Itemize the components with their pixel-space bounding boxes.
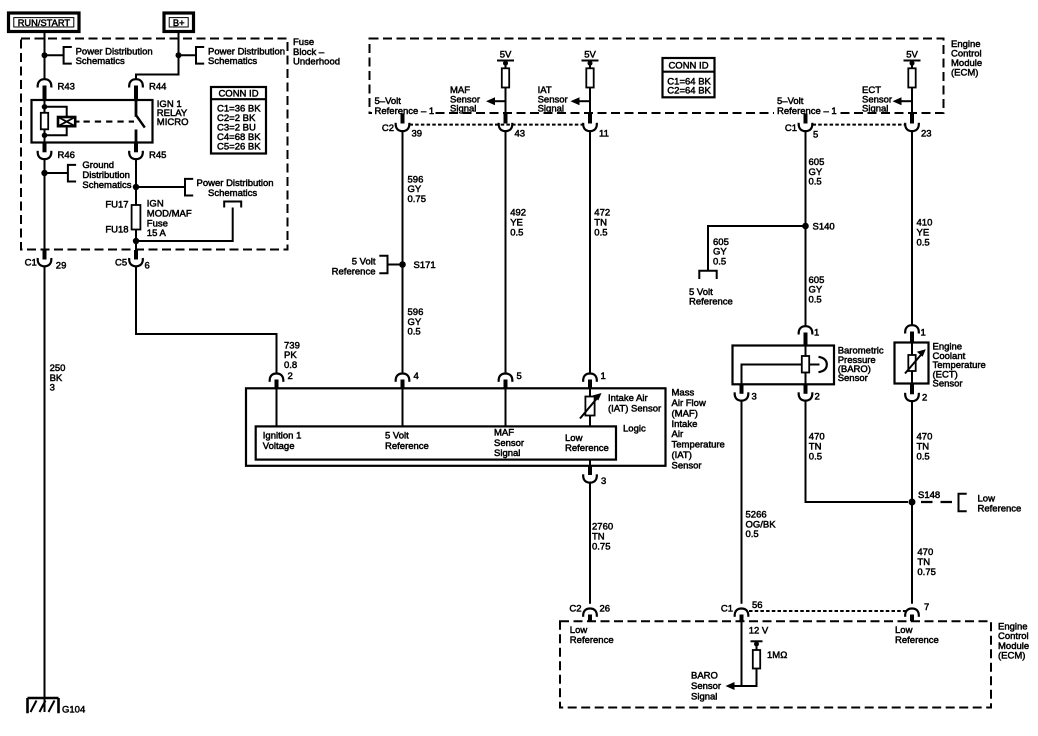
connector ECT pin 2 <box>905 384 927 404</box>
relay coil resistor <box>41 113 48 130</box>
node junction ground distribution <box>41 170 47 176</box>
wire ECT pin2 down to S148 and pin 7 <box>911 401 913 604</box>
net label 5-Volt Reference - 1 (left) <box>372 93 434 117</box>
svg-text:Intake: Intake <box>672 419 698 430</box>
connector R43 <box>38 79 75 100</box>
label 470 TN 0.5 (BARO) <box>809 432 825 463</box>
label 470 TN 0.75 <box>917 547 936 578</box>
connector dotted line 5-23 <box>813 124 906 126</box>
connector R46 <box>38 143 75 162</box>
svg-text:Schematics: Schematics <box>82 180 131 191</box>
svg-text:0.5: 0.5 <box>809 177 822 188</box>
relay coil wire left <box>44 100 46 143</box>
label 5266 OG/BK 0.5 <box>746 510 777 541</box>
resistor 1M ohm <box>753 650 788 669</box>
svg-text:12 V: 12 V <box>749 626 769 637</box>
connector MAF pin 2 <box>270 371 293 388</box>
svg-text:15 A: 15 A <box>147 228 167 239</box>
svg-text:C2: C2 <box>382 123 394 134</box>
node junction on B+ wire <box>176 52 182 58</box>
connector C2 pin 39 <box>382 114 422 140</box>
svg-text:6: 6 <box>145 261 150 272</box>
relay switch contact <box>136 100 145 143</box>
svg-text:Air Flow: Air Flow <box>672 398 706 409</box>
wire B+ down <box>136 32 179 80</box>
connector dotted line 56-7 <box>749 610 906 612</box>
resistor ECT pullup <box>908 68 915 87</box>
svg-text:1: 1 <box>814 328 819 339</box>
svg-text:1: 1 <box>601 371 606 382</box>
off-page reference Power Distribution Schematics (left) <box>64 46 153 67</box>
5V supply MAF <box>497 49 514 68</box>
wire 43 down to MAF pin 5 <box>505 131 507 373</box>
ground G104 <box>28 698 86 716</box>
svg-text:0.5: 0.5 <box>809 451 822 462</box>
svg-text:S148: S148 <box>918 490 940 501</box>
svg-text:2: 2 <box>288 371 293 382</box>
splice S171 <box>399 260 435 271</box>
connector R44 <box>129 79 166 100</box>
svg-text:0.75: 0.75 <box>408 194 427 205</box>
svg-text:Temperature: Temperature <box>672 440 725 451</box>
svg-text:Sensor: Sensor <box>838 373 868 384</box>
connector BARO pin 1 <box>799 326 820 345</box>
svg-text:S171: S171 <box>414 260 436 271</box>
ECM top dashed box <box>370 39 983 114</box>
svg-text:R45: R45 <box>149 150 166 161</box>
wire C1-29 down to G104 <box>44 266 46 698</box>
relay K: IGN 1 RELAY MICRO box <box>32 99 189 143</box>
node coil top junction <box>42 104 48 110</box>
label 605 GY 0.5 (branch) <box>713 237 729 268</box>
resistor IAT pullup <box>586 68 593 87</box>
svg-text:0.75: 0.75 <box>917 567 936 578</box>
MAF logic cell labels <box>263 430 302 452</box>
svg-text:(ECM): (ECM) <box>951 68 978 79</box>
net label 5-Volt Reference - 1 (right) <box>774 93 837 117</box>
svg-text:FU18: FU18 <box>105 225 128 236</box>
node junction on RUN/START wire <box>42 52 48 58</box>
label 2760 TN 0.75 <box>592 522 613 553</box>
svg-text:Schematics: Schematics <box>208 56 257 67</box>
CONN ID table right <box>663 58 715 97</box>
svg-text:C1: C1 <box>25 258 37 269</box>
battery feed RUN/START <box>9 13 80 32</box>
svg-text:RUN/START: RUN/START <box>18 18 71 28</box>
wire junction to ground bracket <box>45 172 68 174</box>
svg-text:S140: S140 <box>813 222 835 233</box>
wire logic to MAF pin 3 <box>589 460 591 466</box>
wire junction to left bracket <box>45 54 64 56</box>
svg-text:C5=26 BK: C5=26 BK <box>217 141 261 152</box>
MAF/IAT sensor outer box <box>246 388 725 472</box>
wire C1-5 down to S140 and BARO pin 1 <box>805 131 807 327</box>
svg-text:C1: C1 <box>721 603 733 614</box>
svg-text:11: 11 <box>599 129 609 140</box>
svg-text:G104: G104 <box>62 705 85 716</box>
svg-text:29: 29 <box>56 261 67 272</box>
wire R46 down to C1 <box>44 159 46 250</box>
svg-text:0.5: 0.5 <box>594 227 607 238</box>
connector pin 23 <box>905 114 931 140</box>
node coil bottom junction <box>42 133 48 139</box>
svg-text:Intake Air: Intake Air <box>608 393 648 404</box>
wire coil stub right <box>75 121 79 123</box>
connector dotted line 39-11 <box>410 124 584 126</box>
svg-text:Schematics: Schematics <box>76 56 125 67</box>
svg-text:Voltage: Voltage <box>263 441 295 452</box>
svg-text:C1: C1 <box>785 123 797 134</box>
svg-text:Sensor: Sensor <box>672 460 702 471</box>
svg-text:Reference: Reference <box>385 441 429 452</box>
svg-text:2: 2 <box>815 392 820 403</box>
splice S140 <box>802 222 834 233</box>
svg-text:(IAT): (IAT) <box>672 450 692 461</box>
svg-text:0.5: 0.5 <box>809 295 822 306</box>
label 470 TN 0.5 (ECT) <box>917 432 933 463</box>
svg-text:Reference: Reference <box>332 266 376 277</box>
BARO internal resistor <box>802 356 809 373</box>
label 605 GY 0.5 (lower) <box>809 275 825 306</box>
svg-text:56: 56 <box>752 600 763 611</box>
svg-text:0.5: 0.5 <box>917 237 930 248</box>
svg-text:5: 5 <box>517 371 522 382</box>
svg-text:(IAT) Sensor: (IAT) Sensor <box>608 404 661 415</box>
connector pin 11 <box>583 114 609 140</box>
off-page reference Low Reference (S148) <box>959 494 1022 515</box>
svg-text:4: 4 <box>414 371 419 382</box>
wire coil parallel branch <box>45 107 67 117</box>
IAT sensor signal arrow <box>538 85 590 115</box>
svg-text:Logic: Logic <box>623 423 646 434</box>
ECT sensor signal arrow <box>862 85 912 115</box>
net label Low Reference (C2-26) <box>570 625 614 646</box>
svg-text:Reference: Reference <box>978 503 1022 514</box>
svg-text:CONN ID: CONN ID <box>668 61 708 72</box>
svg-text:Underhood: Underhood <box>293 57 340 68</box>
wire pin2 to logic <box>276 388 278 426</box>
label 472 TN 0.5 <box>594 208 610 239</box>
svg-text:Signal: Signal <box>862 104 888 115</box>
svg-text:C2=64 BK: C2=64 BK <box>667 86 711 97</box>
fuse block underhood dashed box <box>21 37 340 250</box>
svg-text:(ECM): (ECM) <box>998 650 1025 661</box>
svg-text:3: 3 <box>50 383 55 394</box>
svg-text:0.5: 0.5 <box>408 327 421 338</box>
wire BARO resistor left branch to pin 3 <box>742 365 802 385</box>
5V supply ECT <box>904 49 921 68</box>
wire R45 down through fuse <box>135 159 137 250</box>
wire BARO pin3 down to C1-56 <box>741 401 743 604</box>
wire S140 branch left to 5 Volt Reference <box>708 226 806 271</box>
connector MAF pin 1 <box>583 371 606 388</box>
label 410 YE 0.5 <box>917 218 933 249</box>
label 492 YE 0.5 <box>510 208 526 239</box>
MAF inner logic box <box>256 423 646 459</box>
wire fuse output to return bracket <box>136 208 233 242</box>
connector ECT pin 1 <box>905 325 926 342</box>
node fuse output junction <box>133 238 139 244</box>
label 596 GY 0.5 <box>408 307 424 338</box>
svg-text:Signal: Signal <box>494 448 520 459</box>
fuse FU17/FU18 IGN MOD/MAF 15A <box>105 199 191 239</box>
svg-text:3: 3 <box>752 392 757 403</box>
connector C1 pin 56 <box>721 600 763 621</box>
BARO sensor signal arrow <box>691 671 742 703</box>
svg-text:R44: R44 <box>149 82 166 93</box>
connector BARO pin 3 <box>735 384 757 402</box>
svg-text:B+: B+ <box>173 18 185 28</box>
connector C1 pin 29 <box>25 250 67 272</box>
wire pin1 to logic through IAT thermistor <box>589 388 591 426</box>
svg-text:BARO: BARO <box>691 671 718 682</box>
off-page reference Power Distribution Schematics (relay) <box>185 178 274 199</box>
connector MAF pin 3 <box>583 466 606 487</box>
svg-text:0.5: 0.5 <box>917 451 930 462</box>
wire BARO resistor right stub <box>809 364 819 366</box>
relay actuator dashed link <box>84 121 135 123</box>
svg-text:R46: R46 <box>58 150 75 161</box>
CONN ID table left <box>211 87 266 154</box>
svg-text:C2: C2 <box>569 603 581 614</box>
connector pin 43 <box>499 114 525 140</box>
wire MAF pin3 down to C2-26 <box>589 483 591 604</box>
svg-text:5V: 5V <box>906 49 918 60</box>
wire junction to power bracket <box>136 186 185 188</box>
wire pin5 to logic <box>505 388 507 426</box>
wire 39 down to MAF pin 4 <box>402 131 404 373</box>
off-page reference 5 Volt Reference (S171) <box>332 256 388 278</box>
svg-text:Reference: Reference <box>689 296 733 307</box>
svg-text:0.75: 0.75 <box>592 542 611 553</box>
svg-text:Sensor: Sensor <box>933 379 963 390</box>
5V supply IAT <box>582 49 599 68</box>
resistor MAF pullup <box>502 68 509 87</box>
connector MAF pin 4 <box>396 371 419 388</box>
connector R45 <box>129 143 166 162</box>
connector MAF pin 5 <box>499 371 522 388</box>
svg-text:5V: 5V <box>584 49 596 60</box>
label 739 PK 0.8 <box>284 340 300 371</box>
svg-text:1MΩ: 1MΩ <box>767 650 787 661</box>
connector BARO pin 2 <box>799 384 820 402</box>
svg-text:Air: Air <box>672 429 684 440</box>
label 596 GY 0.75 <box>408 174 427 205</box>
svg-text:FU17: FU17 <box>105 200 128 211</box>
svg-text:23: 23 <box>921 129 932 140</box>
svg-text:2: 2 <box>922 393 927 404</box>
label 605 GY 0.5 (upper) <box>809 157 825 188</box>
wire BARO pin2 down to S148 <box>806 401 909 502</box>
svg-text:R43: R43 <box>58 82 75 93</box>
svg-text:Sensor: Sensor <box>691 681 721 692</box>
svg-text:Reference: Reference <box>895 635 939 646</box>
svg-text:5V: 5V <box>500 49 512 60</box>
12V supply inside ECM <box>749 626 769 651</box>
svg-text:MICRO: MICRO <box>157 117 189 128</box>
svg-text:39: 39 <box>412 129 423 140</box>
svg-text:C5: C5 <box>115 258 127 269</box>
svg-text:43: 43 <box>515 129 526 140</box>
svg-text:Reference: Reference <box>565 443 609 454</box>
svg-text:Schematics: Schematics <box>208 188 257 199</box>
connector C5 pin 6 <box>115 250 150 272</box>
dashed link S148 to Low Reference <box>921 501 959 503</box>
BARO transducer arc symbol <box>819 357 827 372</box>
wire C5-6 to MAF pin 2 <box>136 266 277 373</box>
svg-text:1: 1 <box>921 328 926 339</box>
wire 23 down to ECT pin 1 <box>911 131 913 326</box>
svg-text:7: 7 <box>924 602 929 613</box>
wire pin4 to logic <box>402 388 404 426</box>
svg-text:Signal: Signal <box>450 104 476 115</box>
wire C1-56 into ECM <box>741 621 743 686</box>
ECT sensor box <box>895 342 986 390</box>
ECM bottom dashed box <box>560 621 1029 707</box>
svg-text:Signal: Signal <box>691 692 717 703</box>
svg-text:Mass: Mass <box>672 388 695 399</box>
wire resistor down to pin 23 <box>911 88 913 114</box>
MAF sensor signal arrow <box>450 85 506 115</box>
node junction power distribution <box>133 184 139 190</box>
wire S171 to 5 Volt Reference bracket <box>388 264 403 266</box>
off-page return bracket (power distribution) <box>224 202 241 208</box>
wire RUN/START down to R43 <box>44 32 46 80</box>
off-page reference 5 Volt Reference (branch) <box>689 271 733 308</box>
svg-text:3: 3 <box>601 476 606 487</box>
svg-text:5 Volt: 5 Volt <box>385 430 409 441</box>
wire resistor down to pin 43 <box>505 88 507 114</box>
wire resistor down to pin 11 <box>589 88 591 114</box>
svg-text:0.5: 0.5 <box>510 227 523 238</box>
relay coil X-box symbol <box>58 117 75 126</box>
wire 1M resistor to BARO signal arrow <box>742 669 757 687</box>
off-page reference Power Distribution Schematics (B+) <box>196 46 285 67</box>
svg-text:Reference: Reference <box>570 635 614 646</box>
svg-text:0.5: 0.5 <box>713 257 726 268</box>
BARO internal wires <box>805 346 807 357</box>
off-page reference Ground Distribution Schematics <box>68 160 132 191</box>
connector C2 pin 26 <box>569 603 610 621</box>
svg-text:CONN ID: CONN ID <box>218 89 258 100</box>
ECT thermistor <box>905 343 926 384</box>
svg-text:26: 26 <box>600 603 611 614</box>
svg-text:(MAF): (MAF) <box>672 408 698 419</box>
battery feed B+ <box>164 13 194 32</box>
wire 11 down to MAF pin 1 <box>589 131 591 373</box>
IAT thermistor <box>580 393 661 419</box>
svg-text:Ignition 1: Ignition 1 <box>263 430 302 441</box>
svg-text:Sensor: Sensor <box>494 438 524 449</box>
svg-text:0.8: 0.8 <box>284 360 297 371</box>
connector pin 7 <box>905 602 929 621</box>
net label Low Reference (pin 7) <box>895 625 939 646</box>
connector C1 pin 5 <box>785 114 818 141</box>
wire junction to right bracket <box>179 54 197 56</box>
svg-text:0.5: 0.5 <box>746 529 759 540</box>
splice S148 <box>909 490 941 506</box>
BARO sensor box <box>733 346 884 385</box>
svg-text:5: 5 <box>813 130 818 141</box>
svg-text:Signal: Signal <box>538 104 564 115</box>
label 250 BK 3 <box>50 363 66 394</box>
